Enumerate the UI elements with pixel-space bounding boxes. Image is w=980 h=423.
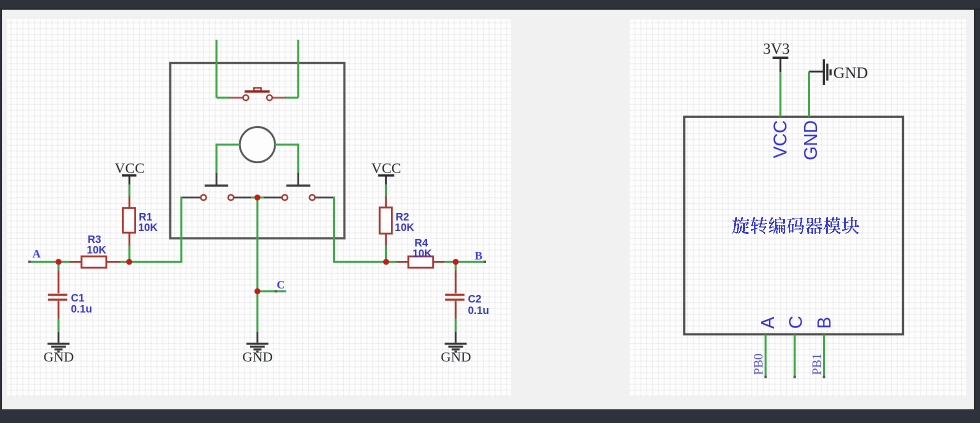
label R4 value	[413, 237, 433, 260]
wire node C stub	[257, 290, 286, 292]
wire pin B	[823, 334, 825, 378]
wire center vertical to node C	[256, 197, 258, 292]
encoder shaft circle	[240, 127, 275, 162]
wire circle-right horizontal	[275, 144, 298, 146]
VCC power symbol left	[115, 161, 145, 185]
resistor R4	[396, 256, 445, 267]
wire to push-button left	[217, 97, 230, 99]
pin GND name	[801, 120, 821, 160]
svg-text:10K: 10K	[138, 222, 158, 234]
svg-text:GND: GND	[833, 65, 868, 82]
push button switch SW (encoder shaft button)	[229, 88, 286, 101]
wire VCC left stem	[128, 185, 130, 197]
wire pin A	[764, 334, 766, 378]
wire left common vertical	[216, 144, 218, 174]
svg-text:C1: C1	[71, 292, 85, 304]
wire R4 left green	[386, 261, 397, 263]
svg-text:0.1u: 0.1u	[71, 304, 92, 316]
node C net label	[277, 279, 285, 291]
junction R1 / R3	[126, 259, 132, 265]
wire C to ground	[256, 291, 258, 332]
wire left outer vertical to node A row	[180, 197, 182, 262]
VCC power symbol right	[371, 161, 401, 185]
svg-text:PB1: PB1	[810, 353, 824, 375]
label C2 value	[468, 294, 489, 317]
pin B name	[814, 317, 834, 329]
encoder common contact left (T bar)	[205, 173, 228, 186]
wire contact feed right	[315, 197, 334, 199]
svg-text:GND: GND	[801, 120, 821, 160]
wire VCC right stem	[385, 185, 387, 197]
junction node A / C1	[56, 259, 62, 265]
encoder contact circles row	[201, 195, 315, 200]
svg-text:GND: GND	[441, 351, 471, 366]
ground GND power symbol (bar style)	[809, 59, 868, 85]
label R1 value	[138, 211, 158, 234]
node A net label	[32, 249, 41, 261]
wire R1 bottom	[128, 245, 130, 262]
svg-text:C2: C2	[468, 294, 482, 306]
capacitor C1	[48, 262, 67, 319]
label C1 value	[71, 292, 92, 315]
capacitor C2	[445, 262, 464, 319]
svg-text:0.1u: 0.1u	[468, 305, 489, 317]
junction center contact	[254, 195, 260, 201]
net label PB0	[752, 353, 766, 375]
resistor R3	[70, 256, 121, 267]
wire C1 to ground	[58, 319, 60, 332]
resistor R2	[380, 196, 392, 246]
ground GND center	[242, 332, 272, 366]
wire R4 right to node B	[444, 261, 486, 263]
module U1 box	[684, 117, 903, 334]
ground GND right	[441, 332, 471, 366]
svg-text:10K: 10K	[87, 244, 107, 256]
svg-text:A: A	[758, 317, 778, 329]
pin C name	[786, 316, 806, 329]
wire pin C	[794, 334, 796, 378]
node B net label	[475, 251, 483, 263]
label R3 value	[87, 234, 107, 257]
svg-text:GND: GND	[242, 351, 272, 366]
svg-text:GND: GND	[44, 351, 74, 366]
rotary encoder S1 body outline	[170, 63, 344, 238]
svg-text:B: B	[475, 251, 483, 263]
svg-text:10K: 10K	[395, 222, 415, 234]
wire top-right vertical	[297, 40, 299, 98]
wire circle-left horizontal	[217, 144, 241, 146]
svg-text:PB0: PB0	[752, 353, 766, 375]
svg-text:VCC: VCC	[770, 120, 790, 158]
net label PB1	[810, 353, 824, 375]
wire right outer vertical to node B row	[333, 197, 335, 262]
junction R2 / R4	[383, 259, 389, 265]
right schematic sheet	[630, 19, 967, 396]
encoder common contact right (T bar)	[286, 173, 310, 186]
svg-text:10K: 10K	[413, 248, 433, 260]
wire contact feed left	[181, 197, 200, 199]
power 3V3 symbol	[763, 41, 790, 72]
left schematic sheet	[7, 19, 511, 397]
wire C2 to ground	[455, 319, 457, 332]
wire GND to pin	[808, 72, 810, 117]
svg-text:A: A	[32, 249, 41, 261]
svg-text:C: C	[786, 316, 806, 329]
wire R3 to corner	[120, 261, 182, 263]
wire right common vertical	[297, 144, 299, 174]
pin VCC name	[770, 120, 790, 158]
wire R2 bottom	[385, 245, 387, 262]
junction node B / C2	[453, 259, 459, 265]
svg-text:3V3: 3V3	[763, 41, 790, 58]
wire node B row from box	[333, 261, 387, 263]
ground GND left	[44, 332, 74, 366]
pin A name	[758, 317, 778, 329]
junction node C	[254, 288, 260, 294]
module title 旋转编码器模块	[732, 217, 859, 234]
wire 3V3 to VCC pin	[779, 72, 781, 117]
wire top-left vertical	[216, 40, 218, 98]
wire to push-button right	[285, 97, 298, 99]
wire node A row	[28, 261, 70, 263]
svg-text:C: C	[277, 279, 285, 291]
label R2 value	[395, 211, 415, 234]
svg-text:B: B	[814, 317, 834, 329]
resistor R1	[123, 196, 135, 246]
